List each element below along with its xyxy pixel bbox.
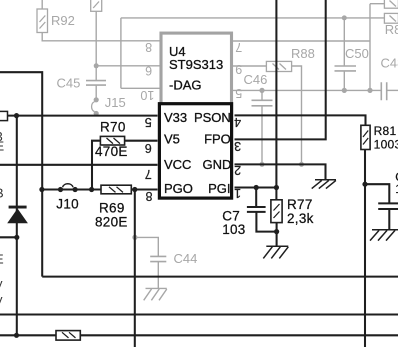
node C46 tap: [259, 88, 264, 93]
IC U4 pin names: [164, 110, 231, 196]
capacitor C44: [150, 256, 166, 261]
wire GND pin2 to ground: [235, 164, 326, 179]
wire gray U4 pin 5 net: [232, 89, 382, 91]
black pin numbers: [145, 115, 241, 203]
gray junction dots: [94, 15, 373, 240]
node C46 at GND: [260, 162, 265, 167]
svg-text:E: E: [0, 138, 5, 153]
svg-text:R8: R8: [385, 22, 398, 37]
node R81 bottom: [362, 182, 367, 187]
node C7 top: [254, 185, 259, 190]
svg-text:1003: 1003: [374, 137, 398, 151]
svg-text:PGI: PGI: [208, 181, 230, 196]
wire bottom rail 1: [0, 313, 398, 315]
svg-text:C44: C44: [174, 251, 198, 266]
capacitor right cut: [378, 203, 398, 209]
svg-text:R88: R88: [291, 46, 315, 61]
svg-text:3: 3: [234, 139, 241, 153]
capacitor C50: [335, 66, 357, 71]
svg-text:E: E: [0, 252, 4, 267]
svg-text:PSON: PSON: [194, 110, 231, 125]
wire R92 bottom to gray U4 pin 8: [42, 33, 159, 41]
wire R70 drop and leads: [92, 141, 158, 190]
resistor R81: [361, 125, 370, 149]
wire node top resistor down to junction: [95, 11, 97, 80]
wire gray U4 pin 7: [232, 40, 371, 42]
resistor bottom (on y=335 rail): [56, 331, 80, 341]
node C44 tap on black line: [132, 235, 137, 240]
resistor R92: [37, 9, 48, 33]
svg-text:V33: V33: [164, 110, 187, 125]
jumper J10: [58, 184, 78, 192]
svg-text:2,3k: 2,3k: [287, 211, 314, 226]
capacitor C45: [86, 81, 106, 86]
wire R81 bottom vertical: [364, 150, 366, 347]
svg-text:9: 9: [235, 62, 242, 76]
svg-text:ST9S313: ST9S313: [169, 57, 223, 72]
wire gray U4 pin 10: [121, 87, 160, 89]
node J10 left: [39, 187, 44, 192]
wire gray U4 pin 6: [96, 65, 159, 67]
node R69 right: [132, 187, 137, 192]
node bottom rail: [14, 333, 19, 338]
wire R69 junction vertical: [134, 190, 136, 347]
svg-text:10: 10: [140, 88, 154, 102]
svg-text:5: 5: [235, 86, 242, 100]
wire R92 top lead: [41, 0, 43, 9]
ground (GND pin2): [312, 180, 336, 189]
gray labels: [51, 13, 398, 266]
svg-text:R70: R70: [100, 120, 126, 135]
wire C50 branch: [343, 18, 345, 91]
wire C7 branch: [256, 188, 276, 232]
svg-text:R69: R69: [99, 200, 125, 215]
svg-text:R81: R81: [374, 124, 397, 138]
svg-text:4: 4: [234, 115, 241, 129]
resistor R70: [100, 136, 124, 145]
svg-text:FPO: FPO: [204, 132, 231, 147]
wire VCC pin7 net: [0, 164, 158, 166]
wire C44 tap: [135, 237, 158, 288]
svg-text:-DAG: -DAG: [169, 77, 202, 92]
svg-text:820E: 820E: [95, 215, 128, 230]
gray U4 upper box: [161, 33, 232, 104]
svg-text:6: 6: [145, 141, 152, 155]
resistor left cut (on V33 wire): [0, 111, 8, 120]
wire right capacitor branch: [365, 184, 389, 229]
wire left stub y=237: [0, 236, 17, 238]
svg-text:R77: R77: [287, 197, 313, 212]
wire R8 riser: [370, 4, 384, 91]
node R8 riser bottom: [367, 88, 372, 93]
capacitor C46: [252, 100, 273, 106]
resistor R8x top right first: [384, 0, 398, 8]
svg-text:C48: C48: [381, 56, 398, 71]
svg-text:470E: 470E: [95, 144, 128, 159]
svg-text:J10: J10: [56, 196, 79, 211]
svg-text:GND: GND: [203, 157, 232, 172]
svg-text:8: 8: [145, 189, 152, 203]
wire FPO pin3 riser: [235, 0, 326, 139]
svg-text:C46: C46: [244, 72, 268, 87]
wire gray U4 pin 9 to R88: [232, 65, 267, 67]
resistor top (cut, above C45): [91, 0, 102, 11]
svg-text:1: 1: [234, 186, 241, 200]
capacitor C7: [247, 207, 266, 212]
svg-text:7: 7: [235, 40, 242, 54]
node R88 at GND: [299, 162, 304, 167]
wire top-left loop to long bottom horizontal: [0, 72, 398, 276]
wire pin10 riser: [120, 18, 122, 88]
wire J10 row to R69: [42, 188, 157, 190]
wire PSON pin4 to R81: [235, 115, 366, 125]
ground (right cut): [370, 230, 398, 241]
node pin6/C45 junction: [94, 63, 99, 68]
gray pin number labels: [140, 40, 242, 102]
wire bottom rail 2: [0, 334, 398, 336]
svg-text:2: 2: [234, 163, 241, 177]
svg-text:PGO: PGO: [164, 181, 193, 196]
wire left vertical through diode: [16, 116, 18, 336]
resistor R88: [266, 61, 291, 71]
wire C48 right stub: [387, 89, 398, 91]
resistor R69: [101, 185, 131, 194]
node diode bottom: [14, 235, 19, 240]
wire C45 to J15: [95, 85, 97, 97]
IC U4 lower black box: [159, 104, 231, 198]
resistor R8x top right second: [384, 13, 398, 23]
svg-text:VCC: VCC: [164, 157, 191, 172]
ground (C7/R77): [263, 246, 288, 258]
wire R88 right to GND drop: [292, 66, 302, 164]
node R77 top: [274, 185, 279, 190]
svg-text:V5: V5: [164, 132, 180, 147]
wire C46 branch down to GND: [261, 90, 263, 164]
svg-text:7: 7: [145, 167, 152, 181]
black component labels: [56, 120, 398, 237]
node C50 top: [342, 15, 347, 20]
resistor R77: [271, 200, 282, 223]
svg-text:103: 103: [222, 222, 245, 237]
ground gray (C44): [144, 288, 167, 300]
jumper J15: [92, 97, 99, 116]
U4 designator text: [169, 44, 223, 92]
node R77 bottom: [274, 229, 279, 234]
diode D (left): [7, 206, 28, 224]
svg-text:5: 5: [145, 115, 152, 129]
svg-text:R92: R92: [51, 13, 75, 28]
node R70 drop: [89, 187, 94, 192]
wire long top net y=17.9: [121, 17, 385, 19]
svg-text:J15: J15: [105, 95, 126, 110]
left edge partial labels: [0, 129, 5, 307]
svg-text:B: B: [0, 185, 4, 200]
node V33 left: [14, 113, 19, 118]
svg-text:C45: C45: [57, 75, 81, 90]
wire PGI pin1: [235, 186, 277, 188]
svg-text:8: 8: [145, 40, 152, 54]
wire V33 pin5 net: [0, 115, 158, 117]
svg-text:6: 6: [145, 64, 152, 78]
wire long vertical to PGI: [275, 0, 277, 188]
node C50 bottom: [342, 88, 347, 93]
black junction dots: [14, 113, 368, 338]
svg-text:C50: C50: [345, 46, 369, 61]
capacitor C48: [381, 82, 386, 100]
wire R77 leads: [275, 188, 277, 246]
